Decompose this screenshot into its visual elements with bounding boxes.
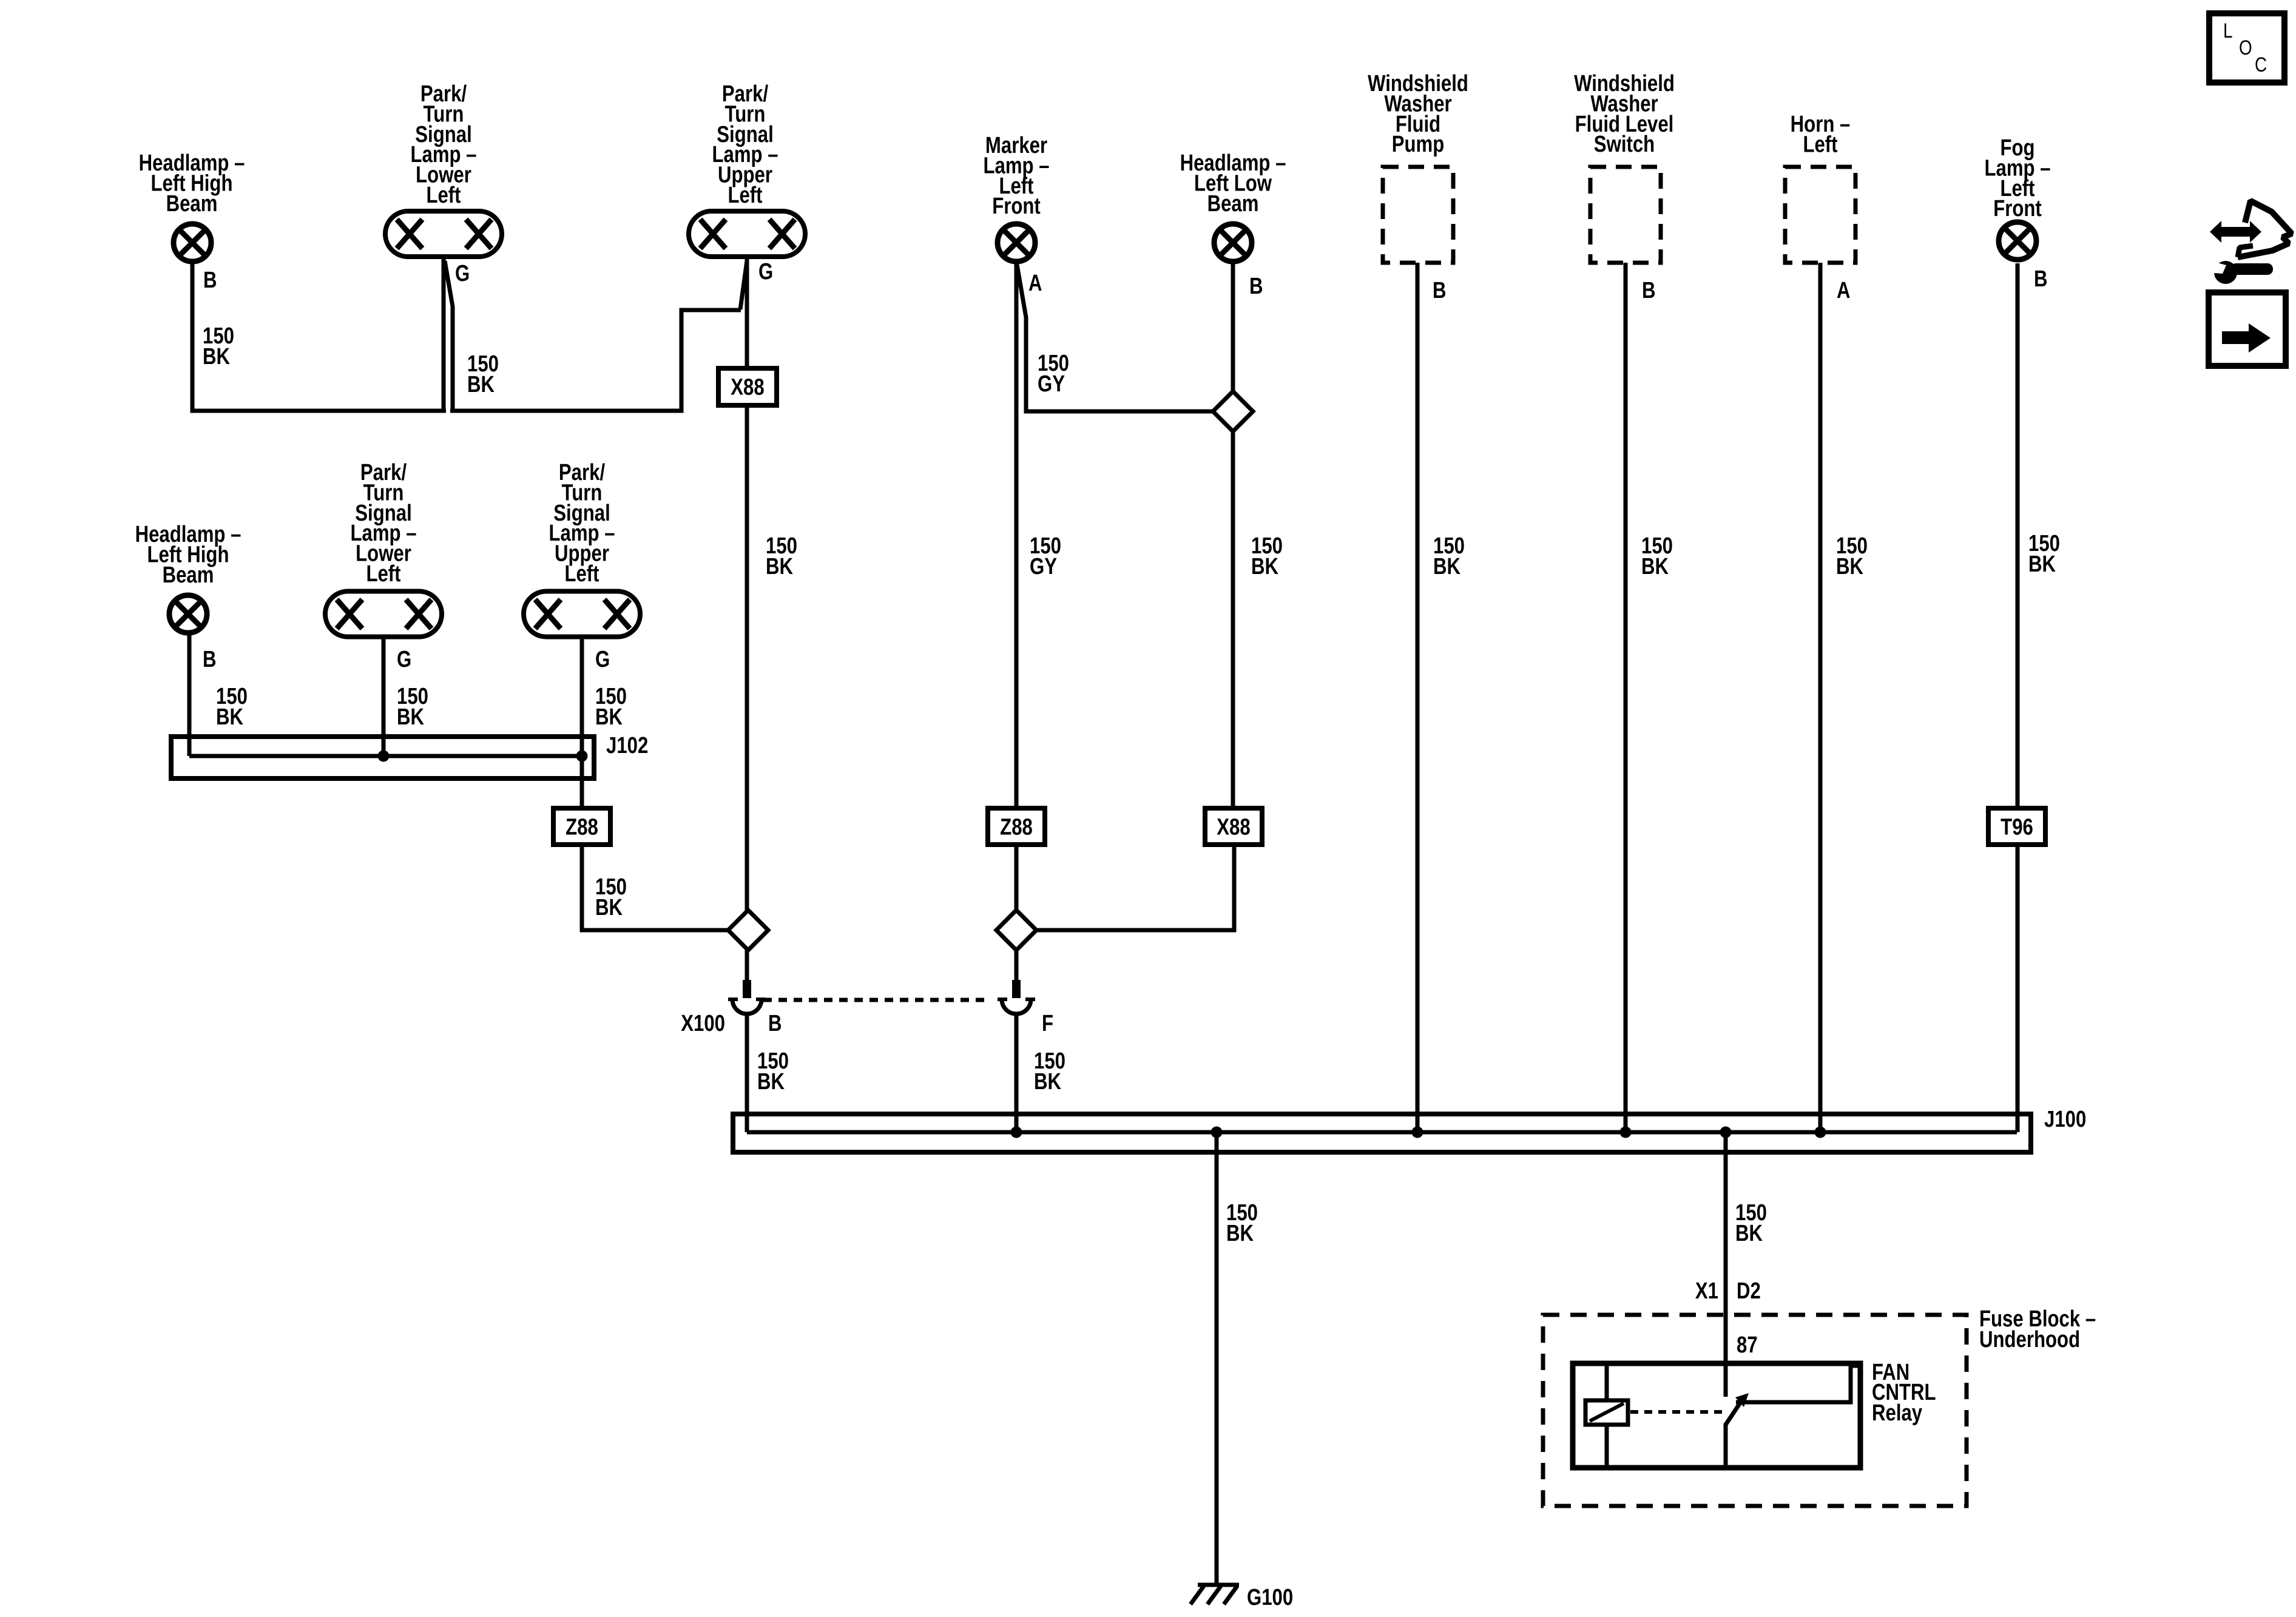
svg-text:J100: J100 bbox=[2044, 1107, 2086, 1132]
svg-text:O: O bbox=[2239, 36, 2252, 59]
svg-text:C: C bbox=[2255, 53, 2267, 76]
svg-text:BK: BK bbox=[397, 704, 424, 730]
svg-text:Left: Left bbox=[1803, 132, 1837, 158]
svg-text:GY: GY bbox=[1030, 554, 1057, 579]
svg-text:Beam: Beam bbox=[1207, 191, 1259, 217]
svg-text:G: G bbox=[397, 647, 411, 672]
svg-text:BK: BK bbox=[216, 704, 243, 730]
svg-text:F: F bbox=[1042, 1011, 1053, 1036]
svg-text:BK: BK bbox=[595, 895, 623, 920]
svg-text:B: B bbox=[203, 268, 217, 293]
svg-text:A: A bbox=[1028, 271, 1042, 296]
svg-text:G100: G100 bbox=[1247, 1585, 1293, 1610]
svg-text:Beam: Beam bbox=[166, 191, 218, 217]
svg-text:87: 87 bbox=[1737, 1332, 1758, 1358]
svg-text:J102: J102 bbox=[606, 733, 648, 758]
svg-text:BK: BK bbox=[203, 344, 230, 370]
svg-text:X88: X88 bbox=[731, 375, 764, 400]
svg-text:G: G bbox=[758, 259, 773, 285]
svg-text:X100: X100 bbox=[681, 1011, 725, 1036]
svg-text:Relay: Relay bbox=[1872, 1400, 1923, 1426]
svg-text:Left: Left bbox=[426, 183, 461, 208]
svg-text:BK: BK bbox=[1433, 554, 1460, 579]
svg-text:Front: Front bbox=[1993, 196, 2042, 221]
svg-text:Pump: Pump bbox=[1392, 132, 1445, 157]
svg-text:Left: Left bbox=[728, 183, 762, 208]
svg-text:BK: BK bbox=[595, 704, 623, 730]
svg-text:B: B bbox=[1642, 278, 1656, 303]
svg-text:B: B bbox=[1433, 278, 1447, 303]
svg-text:D2: D2 bbox=[1737, 1278, 1761, 1304]
svg-text:Underhood: Underhood bbox=[1979, 1327, 2080, 1352]
svg-text:BK: BK bbox=[1034, 1069, 1061, 1095]
svg-text:BK: BK bbox=[766, 554, 793, 579]
svg-text:BK: BK bbox=[1641, 554, 1669, 579]
svg-text:Front: Front bbox=[992, 194, 1041, 219]
svg-text:GY: GY bbox=[1038, 371, 1065, 397]
svg-text:Beam: Beam bbox=[163, 562, 214, 588]
svg-text:BK: BK bbox=[1251, 554, 1278, 579]
svg-text:B: B bbox=[1249, 274, 1263, 299]
svg-text:Z88: Z88 bbox=[1000, 815, 1033, 840]
svg-text:X88: X88 bbox=[1217, 815, 1250, 840]
svg-text:B: B bbox=[2034, 266, 2048, 292]
svg-text:BK: BK bbox=[1226, 1221, 1254, 1246]
svg-text:X1: X1 bbox=[1695, 1278, 1718, 1304]
svg-text:Z88: Z88 bbox=[566, 815, 598, 840]
svg-text:L: L bbox=[2223, 19, 2233, 42]
svg-text:B: B bbox=[768, 1011, 782, 1036]
svg-text:BK: BK bbox=[757, 1069, 785, 1095]
svg-text:A: A bbox=[1837, 278, 1851, 303]
svg-text:G: G bbox=[595, 647, 610, 672]
svg-text:Switch: Switch bbox=[1594, 132, 1655, 157]
svg-text:BK: BK bbox=[1735, 1221, 1763, 1246]
svg-text:G: G bbox=[455, 261, 470, 286]
svg-text:Left: Left bbox=[564, 561, 599, 587]
svg-text:Left: Left bbox=[366, 561, 400, 587]
svg-text:BK: BK bbox=[2028, 552, 2056, 577]
svg-text:BK: BK bbox=[467, 372, 495, 397]
svg-text:B: B bbox=[203, 647, 217, 672]
svg-text:T96: T96 bbox=[2001, 815, 2033, 840]
svg-text:BK: BK bbox=[1836, 554, 1863, 579]
